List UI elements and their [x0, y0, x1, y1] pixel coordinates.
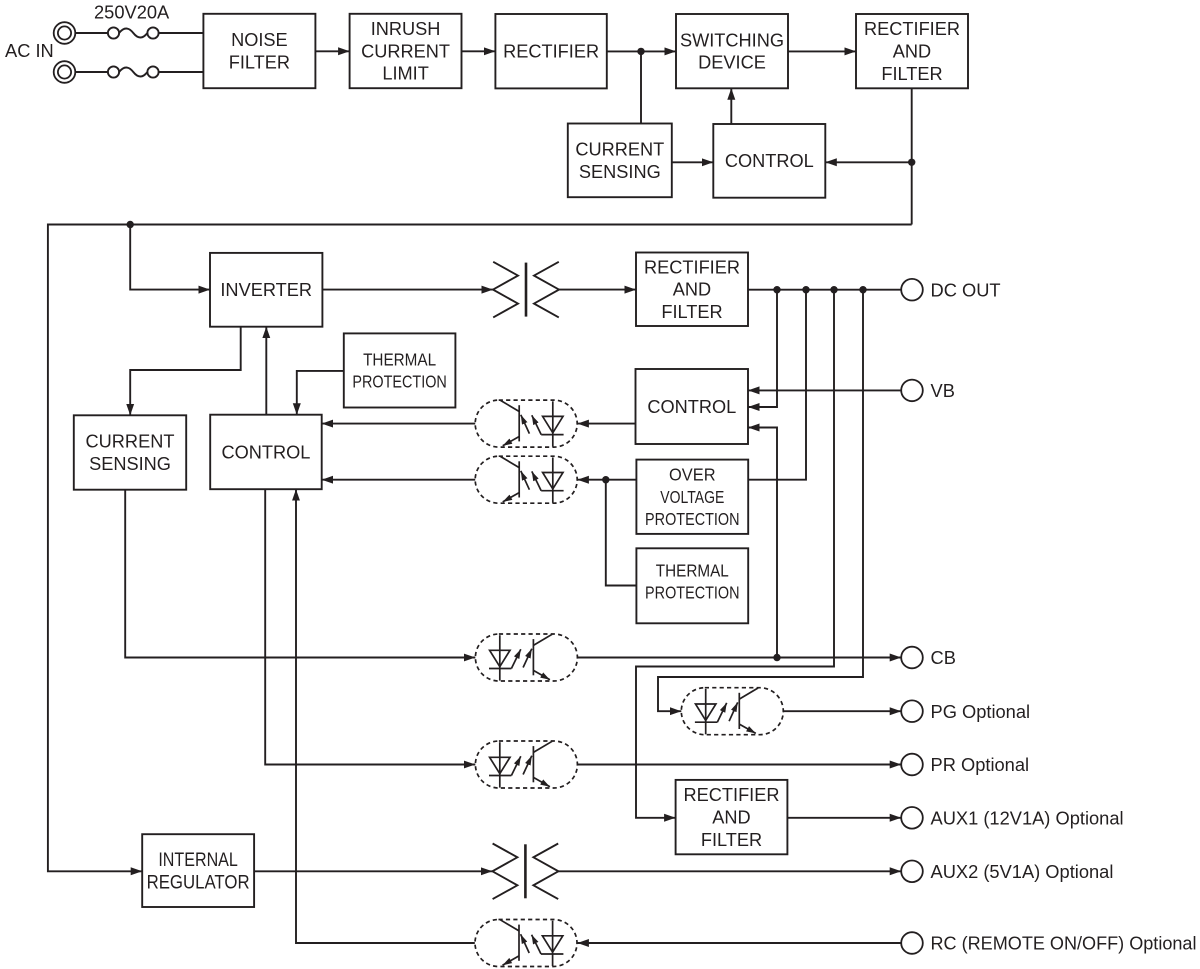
- block CONTROL (secondary): [210, 415, 322, 490]
- junction DC OUT rail 1: [773, 286, 780, 293]
- junction DC OUT rail 2: [802, 286, 809, 293]
- wire INVERTER down to CURRENT SENSING (secondary): [130, 327, 241, 416]
- wire transformer T2 to AUX2 terminal: [558, 870, 901, 872]
- svg-text:AND: AND: [673, 280, 711, 300]
- terminal CB: [901, 647, 956, 669]
- optocoupler PC6 (remote on/off): [475, 920, 577, 967]
- terminal AUX1: [901, 807, 1123, 829]
- block OVER VOLTAGE PROTECTION: [636, 460, 748, 534]
- wire DC rail 4 to optocoupler PC4: [658, 290, 863, 712]
- svg-text:FILTER: FILTER: [229, 53, 290, 73]
- svg-text:AND: AND: [712, 808, 750, 828]
- optocoupler PC1 (voltage feedback): [475, 400, 577, 447]
- transformer T1 (main): [493, 262, 559, 318]
- terminal AUX2: [901, 861, 1113, 883]
- svg-text:CONTROL: CONTROL: [647, 397, 736, 417]
- AC input terminal L: [54, 22, 76, 44]
- block RECTIFIER: [495, 14, 606, 88]
- wire CONTROL up to SWITCHING DEVICE: [730, 88, 732, 124]
- svg-text:AC IN: AC IN: [5, 40, 54, 61]
- svg-text:RC (REMOTE ON/OFF) Optional: RC (REMOTE ON/OFF) Optional: [931, 933, 1197, 954]
- wire node down to THERMAL PROTECTION (secondary): [606, 480, 637, 586]
- svg-text:CURRENT: CURRENT: [361, 41, 450, 61]
- terminal PG: [901, 700, 1030, 722]
- junction DC OUT rail 4: [859, 286, 866, 293]
- wire DC rail 2 to OVER VOLTAGE PROTECTION: [748, 290, 806, 480]
- junction on primary bus: [127, 221, 134, 228]
- svg-text:CURRENT: CURRENT: [86, 432, 175, 452]
- wire optocoupler PC5 to PR terminal: [577, 764, 901, 766]
- wire INTERNAL REGULATOR to transformer T2: [254, 870, 492, 872]
- terminal DC OUT: [901, 279, 1000, 301]
- wire DC rail 3 to RECTIFIER AND FILTER (AUX1): [636, 290, 834, 818]
- wire AC L terminal to fuse F1: [75, 32, 108, 34]
- wire bus junction to INVERTER: [130, 225, 210, 290]
- svg-text:PROTECTION: PROTECTION: [645, 583, 740, 603]
- wire optocoupler PC3 to CB terminal: [577, 657, 901, 659]
- svg-text:AUX2 (5V1A) Optional: AUX2 (5V1A) Optional: [931, 861, 1114, 882]
- svg-text:VB: VB: [931, 380, 955, 401]
- wire CONTROL (output) to optocoupler PC1: [577, 423, 635, 425]
- block CONTROL (output): [636, 369, 749, 444]
- wire CONTROL (secondary) down to optocoupler PC5: [265, 489, 475, 764]
- wire optocoupler PC6 up to CONTROL (secondary): [296, 489, 475, 943]
- block RECTIFIER AND FILTER (output): [636, 253, 748, 327]
- svg-text:SENSING: SENSING: [579, 162, 661, 182]
- wire optocoupler PC1 to CONTROL (secondary): [322, 423, 476, 425]
- svg-text:RECTIFIER: RECTIFIER: [503, 42, 599, 62]
- block CURRENT SENSING (primary): [568, 124, 672, 198]
- wire RC terminal to optocoupler PC6: [577, 942, 901, 944]
- optocoupler PC2 (OVP trip): [475, 456, 577, 503]
- svg-text:SENSING: SENSING: [89, 454, 171, 474]
- junction feedback to CONTROL (primary): [908, 159, 915, 166]
- block THERMAL PROTECTION (secondary): [636, 548, 748, 623]
- svg-text:AND: AND: [893, 42, 931, 62]
- terminal VB: [901, 380, 955, 402]
- svg-text:INRUSH: INRUSH: [371, 19, 441, 39]
- svg-text:CONTROL: CONTROL: [725, 151, 814, 171]
- block INTERNAL REGULATOR: [142, 834, 254, 907]
- wire fuse F1 to NOISE FILTER: [159, 32, 204, 34]
- svg-text:CONTROL: CONTROL: [221, 442, 310, 462]
- wire RECTIFIER AND FILTER down to primary bus: [911, 88, 913, 224]
- block CONTROL (primary): [713, 124, 825, 198]
- wire OVER VOLTAGE PROTECTION to optocoupler PC2: [577, 479, 636, 481]
- svg-text:SWITCHING: SWITCHING: [680, 30, 784, 50]
- optocoupler PC3 (CB signal): [475, 634, 577, 681]
- svg-text:LIMIT: LIMIT: [382, 64, 428, 84]
- svg-text:250V20A: 250V20A: [94, 2, 170, 23]
- svg-text:CB: CB: [931, 647, 956, 668]
- svg-text:THERMAL: THERMAL: [363, 349, 436, 369]
- svg-text:PROTECTION: PROTECTION: [352, 372, 447, 392]
- block RECTIFIER AND FILTER (AUX1): [676, 780, 788, 854]
- optocoupler PC4 (PG signal): [681, 688, 783, 735]
- wire CURRENT SENSING to CONTROL (primary): [672, 161, 714, 163]
- wire transformer T1 to RECTIFIER AND FILTER (output): [559, 289, 636, 291]
- block RECTIFIER AND FILTER (primary): [856, 14, 968, 88]
- wire THERMAL PROTECTION into CONTROL (secondary): [297, 371, 344, 415]
- svg-text:NOISE: NOISE: [231, 30, 288, 50]
- wire RECTIFIER AND FILTER to DC OUT: [748, 289, 901, 291]
- wire INRUSH CURRENT LIMIT to RECTIFIER: [462, 50, 496, 52]
- wire VB into CONTROL (output): [748, 389, 901, 391]
- svg-text:PROTECTION: PROTECTION: [645, 509, 740, 529]
- wire feedback into CONTROL (primary): [825, 161, 911, 163]
- svg-text:CURRENT: CURRENT: [575, 140, 664, 160]
- fuse F1: [108, 27, 159, 38]
- svg-text:OVER: OVER: [669, 465, 716, 485]
- fuse F2: [108, 66, 159, 77]
- svg-text:RECTIFIER: RECTIFIER: [644, 257, 740, 277]
- svg-text:DEVICE: DEVICE: [698, 53, 766, 73]
- AC input terminal N: [54, 61, 76, 83]
- svg-text:VOLTAGE: VOLTAGE: [660, 487, 724, 507]
- block INVERTER: [210, 253, 322, 327]
- wire RECTIFIER AND FILTER (AUX1) to AUX1 terminal: [787, 817, 901, 819]
- junction DC OUT rail 3: [830, 286, 837, 293]
- wire DC rail 1 into CONTROL (output): [748, 290, 777, 407]
- block NOISE FILTER: [203, 14, 315, 88]
- svg-text:REGULATOR: REGULATOR: [147, 873, 250, 894]
- wire primary bus to INTERNAL REGULATOR: [48, 225, 912, 872]
- svg-text:RECTIFIER: RECTIFIER: [864, 19, 960, 39]
- wire junction down to CURRENT SENSING (primary): [640, 51, 642, 123]
- junction CB sense tap: [773, 654, 780, 661]
- terminal RC: [901, 932, 1196, 954]
- svg-text:DC OUT: DC OUT: [931, 279, 1001, 300]
- svg-text:FILTER: FILTER: [881, 64, 942, 84]
- svg-text:INVERTER: INVERTER: [220, 280, 312, 300]
- junction after RECTIFIER: [637, 48, 644, 55]
- wire SWITCHING DEVICE to RECTIFIER AND FILTER: [788, 50, 856, 52]
- svg-text:INTERNAL: INTERNAL: [158, 850, 238, 871]
- wire optocoupler PC4 to PG terminal: [783, 710, 901, 712]
- wire NOISE FILTER to INRUSH CURRENT LIMIT: [315, 50, 349, 52]
- svg-text:PR Optional: PR Optional: [931, 754, 1030, 775]
- terminal PR: [901, 754, 1029, 776]
- wire optocoupler PC2 to CONTROL (secondary): [322, 479, 476, 481]
- svg-text:RECTIFIER: RECTIFIER: [684, 785, 780, 805]
- junction OVP / thermal node: [602, 476, 609, 483]
- optocoupler PC5 (PR signal): [475, 741, 577, 788]
- wire INVERTER to transformer T1: [322, 289, 493, 291]
- block SWITCHING DEVICE: [676, 14, 788, 88]
- wire CB sense into CONTROL (output): [748, 428, 777, 658]
- svg-text:THERMAL: THERMAL: [656, 560, 729, 580]
- wire AC N terminal to fuse F2: [75, 71, 108, 73]
- block CURRENT SENSING (secondary): [74, 415, 186, 489]
- wire RECTIFIER to SWITCHING DEVICE: [607, 50, 676, 52]
- transformer T2 (aux): [492, 844, 558, 900]
- wire CURRENT SENSING down to optocoupler PC3: [125, 490, 475, 658]
- block INRUSH CURRENT LIMIT: [350, 14, 462, 88]
- svg-text:AUX1 (12V1A) Optional: AUX1 (12V1A) Optional: [931, 807, 1124, 828]
- block THERMAL PROTECTION (inverter): [344, 333, 456, 407]
- svg-text:FILTER: FILTER: [701, 830, 762, 850]
- wire fuse F2 to NOISE FILTER: [159, 71, 204, 73]
- svg-text:PG Optional: PG Optional: [931, 701, 1031, 722]
- svg-text:FILTER: FILTER: [661, 302, 722, 322]
- wire CONTROL up into INVERTER: [265, 327, 267, 415]
